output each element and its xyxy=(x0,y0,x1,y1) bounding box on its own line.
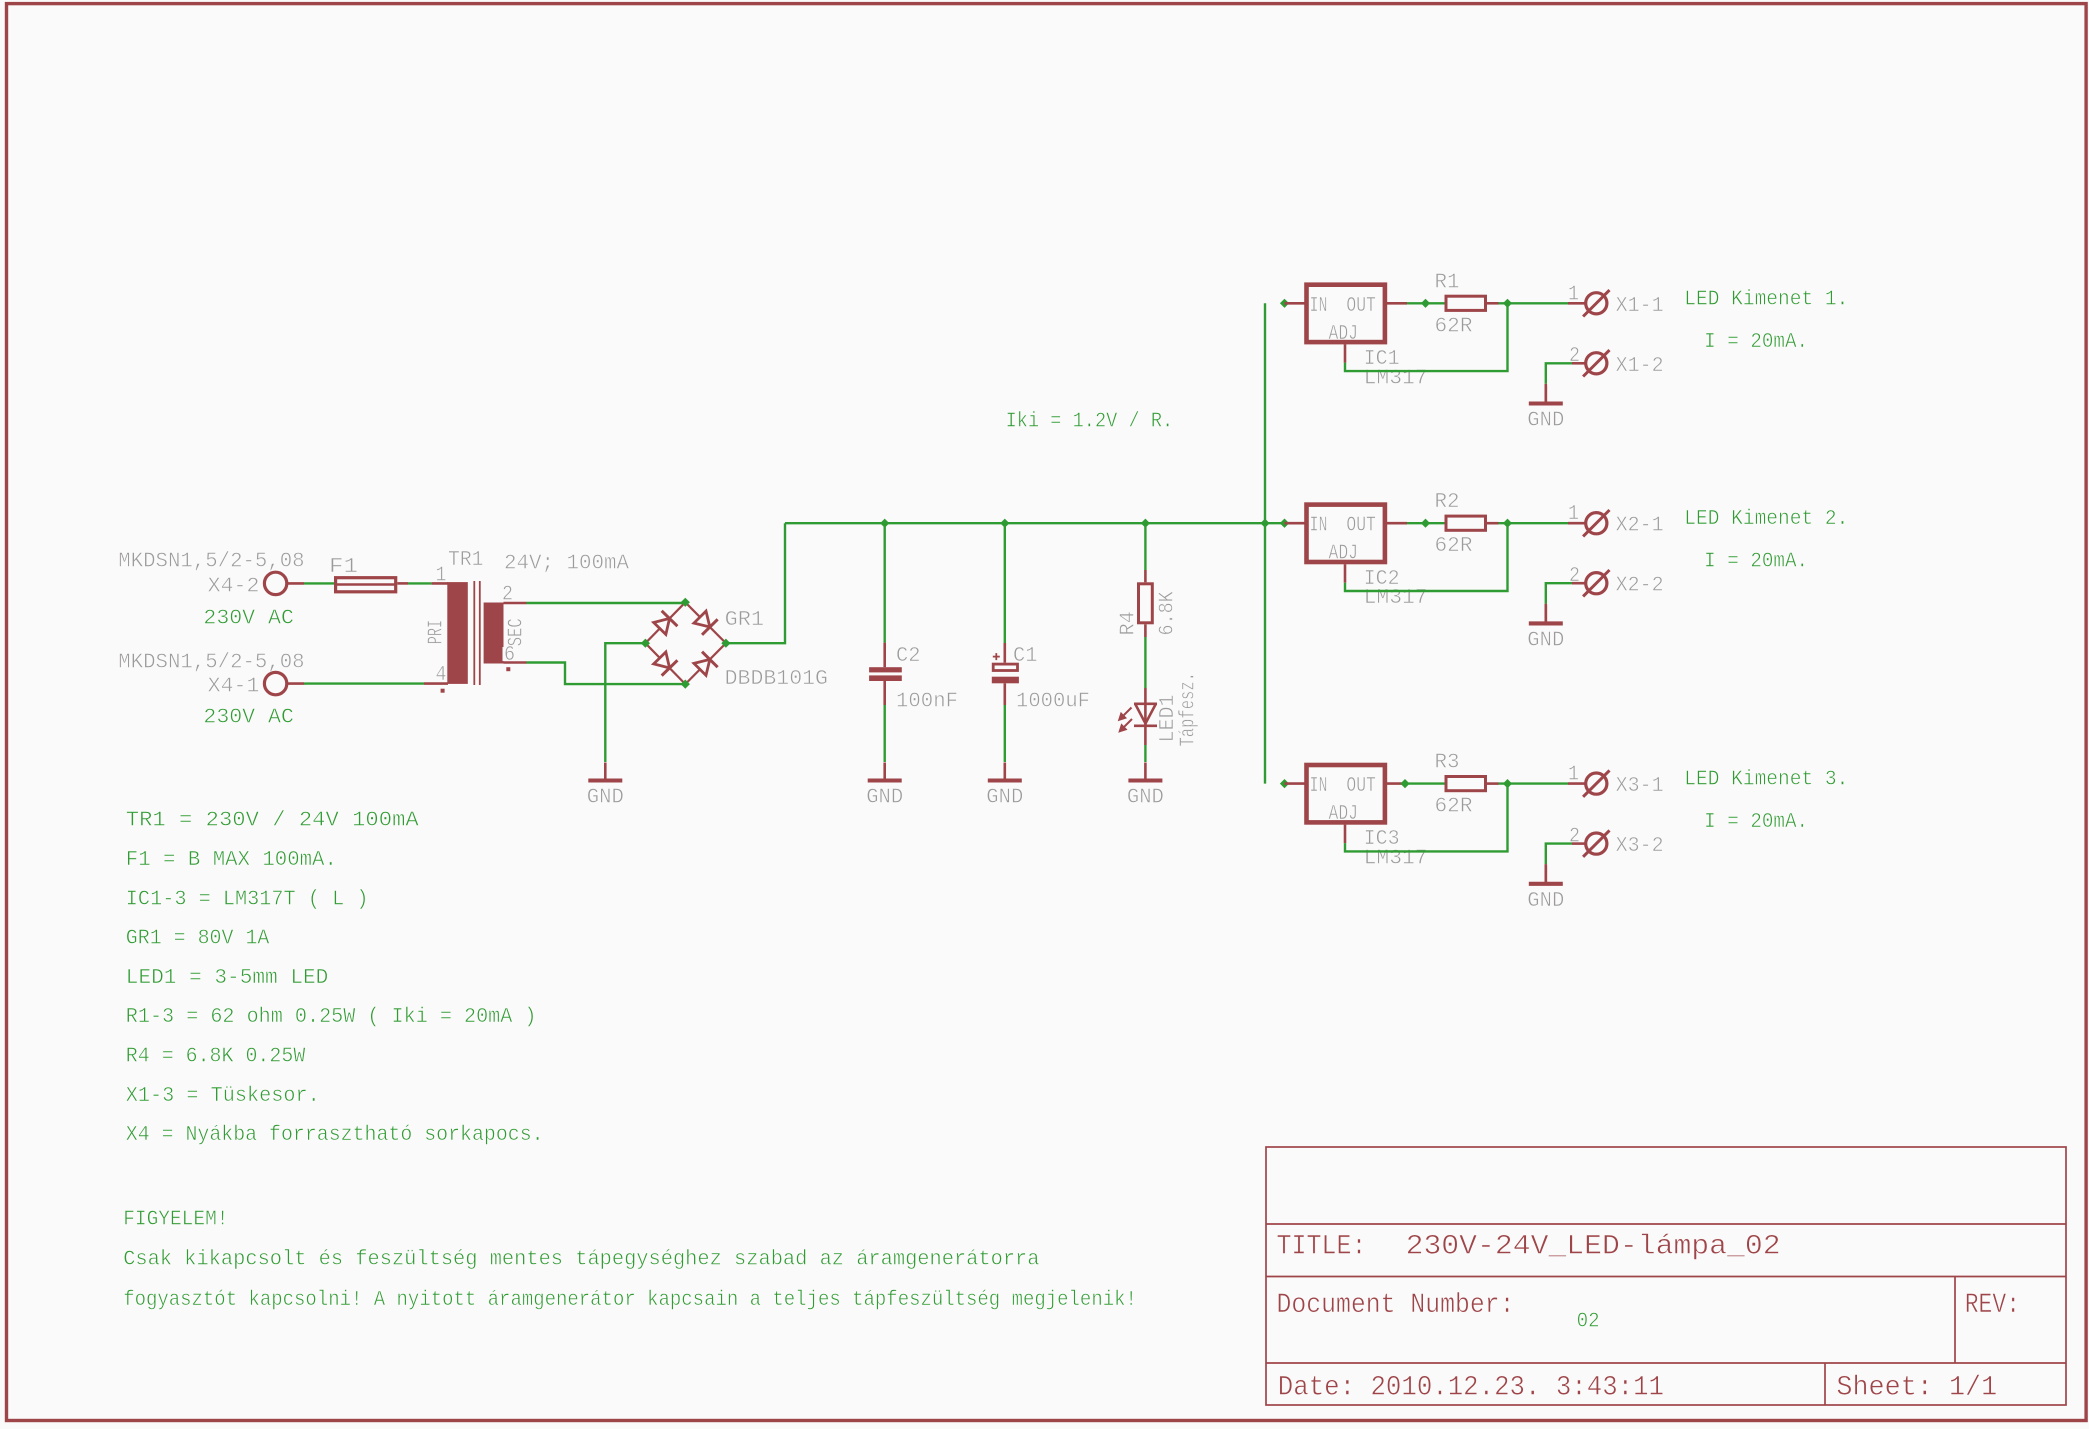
svg-text:OUT: OUT xyxy=(1346,774,1376,798)
svg-text:I = 20mA.: I = 20mA. xyxy=(1704,330,1808,354)
svg-text:X4 = Nyákba forrasztható sorka: X4 = Nyákba forrasztható sorkapocs. xyxy=(126,1123,544,1147)
svg-text:PRI: PRI xyxy=(425,620,449,644)
svg-text:Iki = 1.2V / R.: Iki = 1.2V / R. xyxy=(1006,410,1174,434)
svg-text:R4 = 6.8K 0.25W: R4 = 6.8K 0.25W xyxy=(126,1045,306,1069)
svg-text:Csak kikapcsolt és feszültség: Csak kikapcsolt és feszültség mentes táp… xyxy=(123,1247,1039,1271)
svg-text:100nF: 100nF xyxy=(896,690,958,714)
svg-text:ADJ: ADJ xyxy=(1329,542,1359,566)
svg-text:1: 1 xyxy=(436,564,447,588)
svg-text:2: 2 xyxy=(1569,824,1580,848)
svg-text:I = 20mA.: I = 20mA. xyxy=(1704,550,1808,574)
svg-text:X2-2: X2-2 xyxy=(1616,574,1664,598)
svg-text:LED Kimenet 1.: LED Kimenet 1. xyxy=(1684,287,1848,311)
svg-text:X3-2: X3-2 xyxy=(1616,834,1664,858)
svg-text:SEC: SEC xyxy=(505,618,529,646)
svg-text:R1: R1 xyxy=(1435,270,1460,294)
svg-text:MKDSN1,5/2-5,08: MKDSN1,5/2-5,08 xyxy=(118,650,304,674)
svg-text:GND: GND xyxy=(1527,628,1564,652)
svg-text:02: 02 xyxy=(1577,1310,1600,1334)
svg-text:24V; 100mA: 24V; 100mA xyxy=(504,552,629,576)
svg-text:F1 = B MAX 100mA.: F1 = B MAX 100mA. xyxy=(126,848,337,872)
svg-text:X4-2: X4-2 xyxy=(208,574,260,598)
svg-text:DBDB101G: DBDB101G xyxy=(725,667,828,691)
svg-text:X1-2: X1-2 xyxy=(1616,354,1664,378)
svg-text:X3-1: X3-1 xyxy=(1616,774,1664,798)
svg-text:fogyasztót kapcsolni! A nyitot: fogyasztót kapcsolni! A nyitott áramgene… xyxy=(123,1288,1137,1312)
svg-text:IN: IN xyxy=(1310,774,1328,798)
svg-text:X1-3 = Tüskesor.: X1-3 = Tüskesor. xyxy=(126,1084,320,1108)
svg-text:1000uF: 1000uF xyxy=(1016,690,1090,714)
svg-text:LED1 = 3-5mm LED: LED1 = 3-5mm LED xyxy=(126,966,328,990)
svg-text:IC1-3 = LM317T ( L ): IC1-3 = LM317T ( L ) xyxy=(126,887,369,911)
svg-text:C1: C1 xyxy=(1013,644,1038,668)
svg-text:GND: GND xyxy=(866,786,903,810)
svg-text:GR1 = 80V 1A: GR1 = 80V 1A xyxy=(126,927,270,951)
svg-text:REV:: REV: xyxy=(1965,1290,2020,1321)
svg-text:2: 2 xyxy=(1569,344,1580,368)
svg-text:TITLE:: TITLE: xyxy=(1277,1232,1367,1263)
svg-text:X1-1: X1-1 xyxy=(1616,294,1664,318)
svg-text:GR1: GR1 xyxy=(725,608,765,632)
svg-text:LED Kimenet 2.: LED Kimenet 2. xyxy=(1684,507,1848,531)
svg-text:230V-24V_LED-lámpa_02: 230V-24V_LED-lámpa_02 xyxy=(1406,1232,1781,1263)
svg-text:IN: IN xyxy=(1310,514,1328,538)
svg-text:GND: GND xyxy=(1527,889,1564,913)
svg-text:ADJ: ADJ xyxy=(1329,322,1359,346)
svg-text:GND: GND xyxy=(1527,409,1564,433)
svg-text:R3: R3 xyxy=(1435,751,1460,775)
svg-text:2: 2 xyxy=(1569,564,1580,588)
svg-text:R1-3 = 62 ohm 0.25W ( Iki = 20: R1-3 = 62 ohm 0.25W ( Iki = 20mA ) xyxy=(126,1005,537,1029)
svg-text:FIGYELEM!: FIGYELEM! xyxy=(123,1207,228,1231)
svg-text:1: 1 xyxy=(1568,502,1579,526)
svg-text:R2: R2 xyxy=(1435,490,1460,514)
svg-text:GND: GND xyxy=(986,786,1023,810)
svg-text:X2-1: X2-1 xyxy=(1616,514,1664,538)
svg-text:MKDSN1,5/2-5,08: MKDSN1,5/2-5,08 xyxy=(118,550,304,574)
svg-text:OUT: OUT xyxy=(1346,514,1376,538)
svg-text:ADJ: ADJ xyxy=(1329,802,1359,826)
svg-text:F1: F1 xyxy=(329,555,358,579)
svg-text:62R: 62R xyxy=(1435,314,1473,338)
svg-text:R4: R4 xyxy=(1117,611,1141,635)
svg-text:1: 1 xyxy=(1568,282,1579,306)
svg-text:TR1: TR1 xyxy=(448,548,484,572)
svg-text:6.8K: 6.8K xyxy=(1156,591,1180,635)
svg-text:X4-1: X4-1 xyxy=(208,675,260,699)
svg-text:IN: IN xyxy=(1310,294,1328,318)
svg-text:62R: 62R xyxy=(1435,534,1473,558)
svg-text:LM317: LM317 xyxy=(1364,847,1428,871)
svg-text:LED Kimenet 3.: LED Kimenet 3. xyxy=(1684,768,1848,792)
svg-text:230V AC: 230V AC xyxy=(203,706,294,730)
svg-text:62R: 62R xyxy=(1435,795,1473,819)
svg-text:TR1 = 230V / 24V 100mA: TR1 = 230V / 24V 100mA xyxy=(126,809,419,833)
svg-text:Document Number:: Document Number: xyxy=(1277,1290,1515,1321)
svg-text:GND: GND xyxy=(1127,786,1164,810)
svg-text:1: 1 xyxy=(1568,763,1579,787)
svg-text:Sheet: 1/1: Sheet: 1/1 xyxy=(1836,1373,1997,1404)
svg-text:Date: 2010.12.23. 3:43:11: Date: 2010.12.23. 3:43:11 xyxy=(1278,1373,1664,1404)
svg-text:OUT: OUT xyxy=(1346,294,1376,318)
svg-text:C2: C2 xyxy=(896,644,921,668)
svg-text:4: 4 xyxy=(436,663,447,687)
svg-text:Tápfesz.: Tápfesz. xyxy=(1177,672,1201,747)
svg-text:GND: GND xyxy=(587,786,624,810)
svg-text:I = 20mA.: I = 20mA. xyxy=(1704,810,1808,834)
svg-text:230V AC: 230V AC xyxy=(203,607,294,631)
